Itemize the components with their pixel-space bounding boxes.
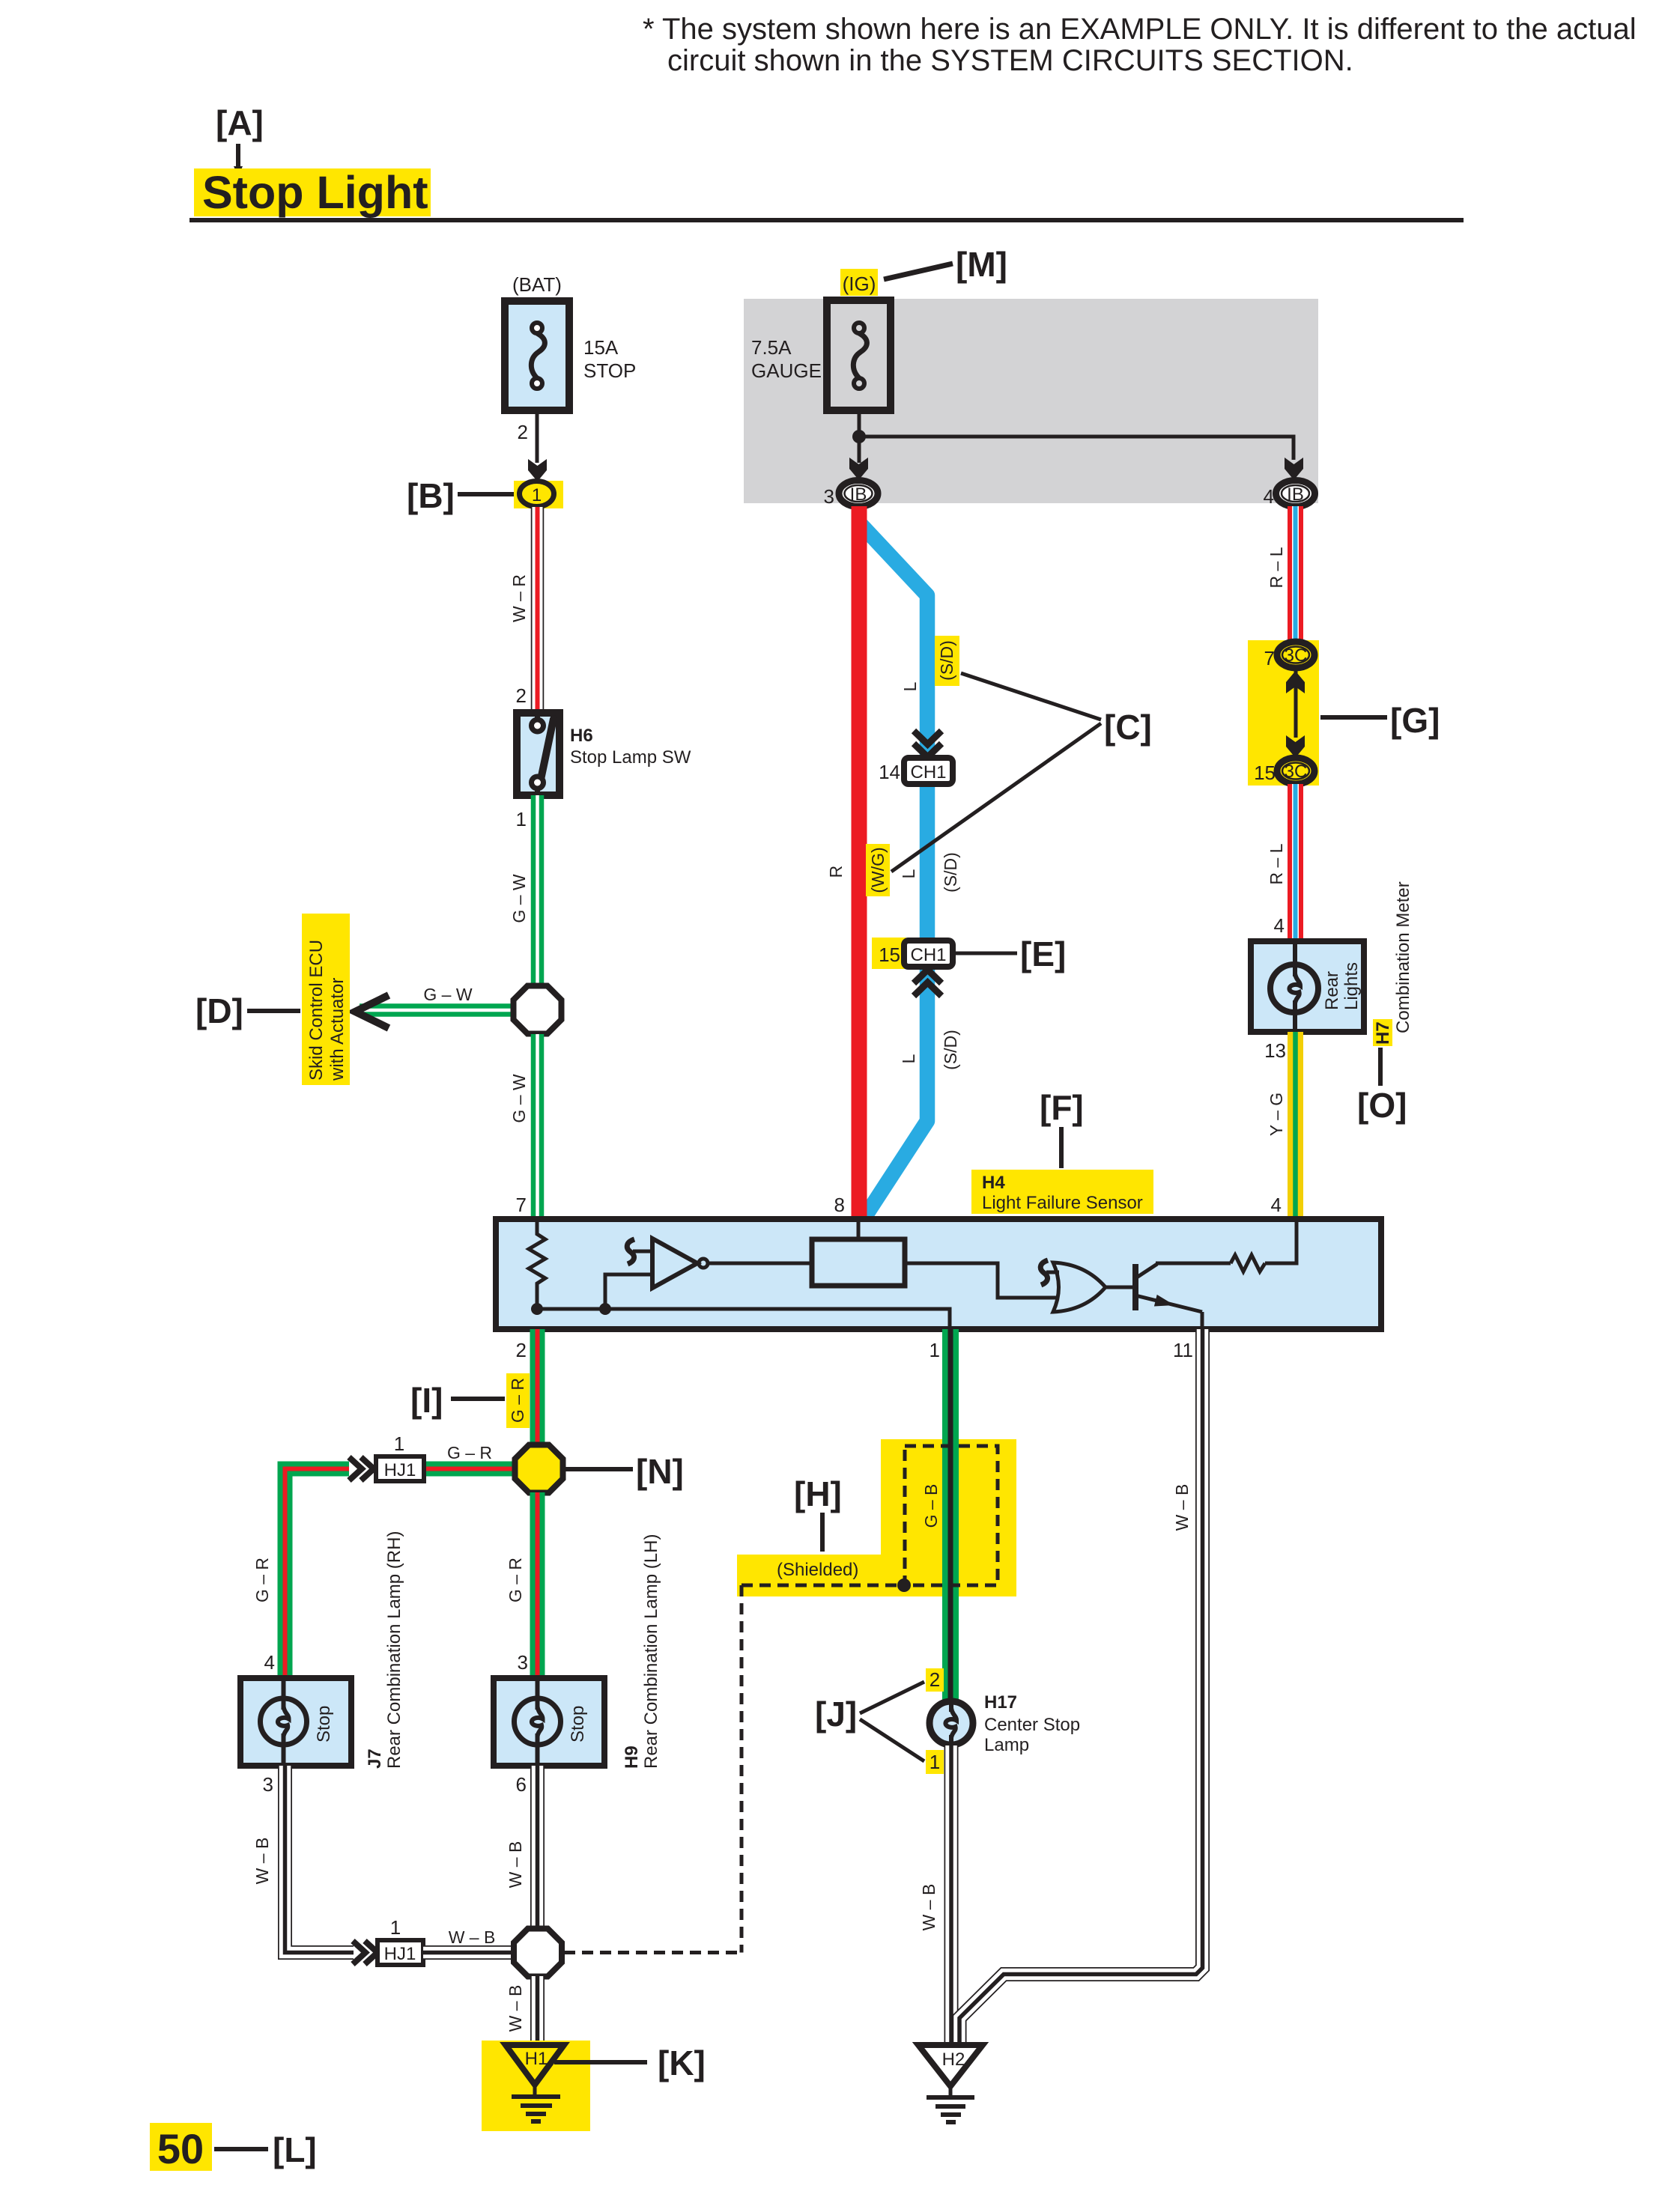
node junction dot 1 [531, 1303, 543, 1315]
connector CH1 (15) [904, 941, 953, 967]
wire G-W branch to skid ECU [360, 1003, 517, 1017]
svg-text:3: 3 [824, 485, 834, 508]
svg-text:G – W: G – W [509, 1074, 529, 1122]
wire G-R HJ1 to node N [424, 1462, 517, 1477]
wire resistor to pin 4 [1265, 1219, 1297, 1263]
svg-text:W – B: W – B [449, 1927, 496, 1947]
resistor R2 (horizontal) [1231, 1255, 1265, 1271]
svg-text:3C: 3C [1285, 762, 1308, 782]
svg-text:(IG): (IG) [843, 273, 876, 295]
wire junction down [858, 437, 861, 463]
wire OR to transistor base [1106, 1286, 1133, 1289]
label H9 Rear Combination Lamp (LH) [622, 1534, 661, 1769]
resistor R1 (vertical) [529, 1219, 545, 1309]
arrow below 3C 7 [1286, 671, 1305, 693]
node octagon junction (W-B) [514, 1929, 562, 1977]
label J7 Rear Combination Lamp (RH) [365, 1531, 404, 1769]
svg-text:2: 2 [516, 1339, 527, 1361]
svg-text:W – B: W – B [252, 1838, 272, 1885]
svg-text:Rear: Rear [1322, 971, 1342, 1010]
svg-text:3C: 3C [1285, 645, 1308, 666]
svg-text:[B]: [B] [407, 476, 455, 515]
wire from fuse F1 down [536, 414, 539, 463]
svg-text:Combination Meter: Combination Meter [1393, 881, 1413, 1033]
callout L [214, 2130, 317, 2169]
svg-text:4: 4 [1271, 1194, 1282, 1216]
svg-text:Skid Control ECU: Skid Control ECU [306, 940, 327, 1081]
svg-text:1: 1 [394, 1432, 404, 1455]
callout M [884, 245, 1007, 284]
svg-text:4: 4 [1264, 485, 1274, 508]
node octagon junction (G-W) [514, 986, 562, 1034]
svg-text:1: 1 [390, 1916, 401, 1939]
svg-text:2: 2 [930, 1668, 940, 1691]
svg-text:6: 6 [516, 1773, 527, 1796]
callout G [1320, 701, 1440, 740]
wire junction to right [859, 437, 1294, 460]
svg-text:W – B: W – B [506, 1841, 525, 1889]
label H4 Light Failure Sensor highlighted [971, 1170, 1153, 1214]
svg-text:IB: IB [850, 484, 867, 505]
node N octagon (highlighted) [515, 1445, 563, 1493]
node junction dot 2 [599, 1303, 611, 1315]
label H7 highlighted [1373, 1019, 1393, 1046]
callout A [216, 103, 264, 177]
svg-text:G – R: G – R [447, 1443, 492, 1462]
callout E [955, 935, 1066, 973]
connector IB (pin 4) [1276, 481, 1315, 507]
svg-text:H1: H1 [525, 2049, 548, 2069]
svg-text:1: 1 [532, 485, 542, 505]
svg-text:J7: J7 [365, 1748, 385, 1769]
wire W-B from H17 to ground H2 [944, 1745, 959, 2045]
svg-text:H9: H9 [622, 1745, 642, 1769]
fuse F1 15A STOP [505, 301, 569, 410]
svg-text:15: 15 [879, 944, 900, 966]
wire G-R from pin 2 to node N [530, 1329, 545, 1448]
rear combination lamp LH box H9 [494, 1678, 604, 1766]
pin 2 label H17 (highlighted) [926, 1668, 944, 1692]
svg-text:Center Stop: Center Stop [984, 1715, 1080, 1735]
arrow to skid control ECU [355, 995, 389, 1028]
svg-text:IB: IB [1287, 484, 1304, 505]
svg-text:4: 4 [264, 1651, 275, 1674]
wire W-B from J7 [285, 1766, 354, 1953]
svg-text:[A]: [A] [216, 103, 264, 142]
svg-text:[I]: [I] [410, 1381, 443, 1420]
wire G-W lower [531, 1034, 545, 1219]
svg-text:G – R: G – R [252, 1558, 272, 1602]
svg-text:[C]: [C] [1104, 708, 1152, 747]
svg-text:Lamp: Lamp [984, 1735, 1029, 1755]
wire G-R down-left branch [285, 1469, 350, 1679]
svg-text:[D]: [D] [195, 991, 243, 1030]
svg-text:L: L [899, 869, 918, 878]
wire pin 8 to block [857, 1219, 861, 1239]
svg-text:CH1: CH1 [910, 945, 946, 965]
svg-text:4: 4 [1274, 914, 1285, 937]
arrow into 3C 15 [1286, 735, 1305, 758]
hysteresis symbol U1 [627, 1239, 652, 1264]
svg-text:[M]: [M] [956, 245, 1007, 284]
svg-text:15A: 15A [583, 336, 619, 359]
page number 50 (highlighted) [150, 2123, 212, 2172]
svg-text:2: 2 [518, 421, 528, 443]
svg-text:50: 50 [157, 2125, 204, 2172]
fuse F2 7.5A GAUGE [827, 300, 891, 410]
svg-text:[O]: [O] [1357, 1086, 1407, 1125]
svg-text:2: 2 [516, 684, 527, 707]
callout B [407, 476, 518, 515]
callout F [1040, 1088, 1084, 1168]
svg-text:1: 1 [930, 1751, 940, 1773]
label (S/D) upper highlighted [935, 636, 959, 686]
pin 15 label highlighted [872, 938, 906, 969]
svg-text:[J]: [J] [815, 1695, 857, 1734]
wire W-B from H9 to octagon [530, 1766, 545, 1930]
svg-text:3: 3 [263, 1773, 273, 1796]
wire to pin 1 [537, 1309, 950, 1329]
chevron arrows into HJ1 lower [353, 1941, 377, 1964]
node B connector 1 (highlighted) [514, 481, 563, 508]
label H6 Stop Lamp SW [570, 726, 691, 768]
svg-text:Y – G: Y – G [1267, 1093, 1286, 1136]
svg-text:W – R: W – R [509, 574, 529, 622]
svg-text:[E]: [E] [1020, 935, 1066, 973]
svg-text:[L]: [L] [273, 2130, 317, 2169]
fuse F1 value label [583, 336, 636, 382]
title Stop Light [194, 167, 431, 218]
callout D [195, 991, 300, 1030]
svg-text:W – B: W – B [919, 1884, 938, 1931]
svg-text:(Shielded): (Shielded) [777, 1560, 858, 1580]
svg-text:CH1: CH1 [910, 762, 946, 783]
chevron arrows into HJ1 [349, 1457, 374, 1480]
callout H [794, 1474, 842, 1552]
wire W-R [531, 507, 545, 711]
svg-text:Stop Light: Stop Light [202, 167, 428, 218]
callout I [410, 1381, 505, 1420]
svg-text:[G]: [G] [1390, 701, 1440, 740]
svg-text:G – R: G – R [508, 1378, 527, 1423]
svg-text:G – B: G – B [921, 1484, 941, 1528]
svg-text:[K]: [K] [658, 2044, 706, 2082]
rear combination lamp RH box J7 [240, 1678, 351, 1766]
svg-text:[H]: [H] [794, 1474, 842, 1513]
svg-text:H7: H7 [1373, 1021, 1393, 1045]
svg-text:(S/D): (S/D) [941, 1030, 960, 1070]
svg-text:13: 13 [1264, 1039, 1286, 1062]
chevron arrows into CH1 pin 14 [914, 731, 941, 757]
svg-text:G – W: G – W [423, 985, 472, 1004]
wire G-W upper [531, 795, 545, 985]
OR gate U3 [1053, 1263, 1106, 1312]
svg-text:7.5A: 7.5A [751, 336, 792, 359]
svg-text:L: L [899, 1054, 918, 1063]
wire collector to resistor [1156, 1262, 1231, 1265]
wire G-R from node N to H9 [530, 1492, 545, 1678]
wire L (blue, shielded pair) [861, 524, 927, 1218]
svg-text:Light Failure Sensor: Light Failure Sensor [982, 1193, 1143, 1213]
wire W-B HJ1 to octagon [423, 1945, 517, 1960]
svg-text:HJ1: HJ1 [384, 1460, 416, 1480]
wire between 3C connectors [1294, 668, 1298, 738]
connector IB (pin 3) [839, 481, 878, 507]
junction dot [852, 430, 866, 443]
wire R-L upper [1288, 506, 1303, 644]
callout N [564, 1452, 684, 1491]
light failure sensor H4 box [496, 1219, 1381, 1329]
callout C with two leader lines [891, 673, 1152, 872]
wire Y-G [1288, 1032, 1303, 1219]
shield drain dashed wire [564, 1585, 905, 1953]
svg-text:H4: H4 [982, 1173, 1005, 1193]
svg-text:* The system shown here is an: * The system shown here is an EXAMPLE ON… [643, 13, 1637, 46]
highlight zone (Shielded) L-shape [737, 1439, 1016, 1596]
callout J with two leader lines [815, 1682, 924, 1761]
wire R-L lower [1288, 784, 1303, 941]
label G-R highlighted (I) [506, 1373, 530, 1428]
ground H2 [918, 2045, 983, 2122]
wire R (red) [852, 506, 867, 1219]
svg-text:Stop: Stop [568, 1706, 588, 1742]
connector HJ1 lower [377, 1940, 423, 1965]
wire G-B shielded from pin 1 to H17 [942, 1329, 959, 1701]
wire W-B octagon to ground H1 [530, 1976, 545, 2045]
transistor Q1 [1135, 1264, 1202, 1329]
arrow into IB pin 4 [1285, 458, 1303, 480]
shield junction dot [897, 1579, 911, 1592]
wire fuse F2 to junction [858, 414, 861, 437]
svg-text:[F]: [F] [1040, 1088, 1084, 1127]
label (IG) highlighted [840, 269, 878, 296]
callout K [554, 2044, 706, 2082]
chevron arrows out of CH1 pin 15 [914, 970, 941, 996]
svg-text:[N]: [N] [636, 1452, 684, 1491]
label H17 Center Stop Lamp [984, 1692, 1080, 1755]
svg-text:H17: H17 [984, 1692, 1017, 1713]
label Skid Control ECU with Actuator (highlighted) [302, 914, 350, 1085]
wire inverter to block [708, 1262, 812, 1265]
shield dashed box [905, 1446, 998, 1585]
svg-text:H2: H2 [942, 2050, 965, 2070]
connector 3C (7) [1277, 642, 1314, 668]
combination meter rear lights box H7 [1251, 941, 1364, 1032]
svg-text:Stop Lamp SW: Stop Lamp SW [570, 747, 691, 768]
svg-text:G – R: G – R [506, 1558, 525, 1602]
svg-text:Rear Combination Lamp (LH): Rear Combination Lamp (LH) [641, 1534, 661, 1769]
center stop lamp H17 [927, 1698, 976, 1748]
title rule [189, 218, 1464, 222]
pin 1 label H17 (highlighted) [926, 1750, 944, 1774]
svg-text:1: 1 [516, 808, 527, 830]
svg-text:circuit shown in the SYSTEM CI: circuit shown in the SYSTEM CIRCUITS SEC… [667, 44, 1353, 77]
ground H1 (highlighted) [482, 2041, 590, 2131]
arrow into IB pin 3 [849, 458, 868, 480]
svg-text:R – L: R – L [1267, 843, 1286, 884]
inverter U1 [652, 1239, 708, 1288]
switch H6 [517, 711, 559, 797]
svg-text:15: 15 [1254, 762, 1276, 784]
svg-text:W – B: W – B [1172, 1484, 1192, 1531]
svg-text:W – B: W – B [506, 1985, 525, 2032]
wire W-B from pin 11 to ground H2 [959, 1329, 1203, 2045]
junction block (grey) [744, 299, 1318, 503]
wire riser to inverter input [605, 1274, 652, 1309]
svg-text:1: 1 [930, 1339, 940, 1361]
arrow into node B [528, 459, 547, 481]
label (W/G) highlighted [866, 844, 890, 896]
svg-text:HJ1: HJ1 [384, 1944, 416, 1964]
svg-text:Lights: Lights [1341, 962, 1362, 1010]
svg-text:14: 14 [879, 761, 900, 783]
svg-text:G – W: G – W [509, 874, 529, 923]
svg-text:Stop: Stop [314, 1706, 334, 1742]
label Rear Lights [1322, 962, 1362, 1010]
connector HJ1 [376, 1456, 424, 1481]
connector CH1 (14) [904, 758, 953, 784]
svg-text:(S/D): (S/D) [941, 852, 960, 893]
svg-text:(W/G): (W/G) [868, 847, 888, 893]
svg-text:GAUGE: GAUGE [751, 359, 822, 382]
callout O [1357, 1048, 1407, 1125]
svg-text:with Actuator: with Actuator [327, 978, 348, 1081]
svg-text:(BAT): (BAT) [512, 273, 562, 296]
svg-text:11: 11 [1173, 1339, 1193, 1361]
svg-text:R – L: R – L [1267, 547, 1286, 588]
svg-text:7: 7 [1264, 647, 1275, 669]
svg-text:L: L [900, 681, 920, 691]
svg-text:STOP: STOP [583, 359, 636, 382]
connector 3C (15) [1277, 758, 1314, 784]
svg-text:8: 8 [834, 1194, 845, 1216]
svg-text:Rear Combination Lamp (RH): Rear Combination Lamp (RH) [384, 1531, 404, 1769]
wire block to OR gate [905, 1263, 1056, 1298]
highlight box 3C pair [1248, 640, 1319, 786]
svg-text:3: 3 [518, 1651, 528, 1674]
svg-text:7: 7 [516, 1194, 527, 1216]
svg-text:(S/D): (S/D) [937, 640, 956, 681]
svg-text:R: R [826, 866, 846, 878]
control block U2 [812, 1239, 905, 1286]
hysteresis symbol U3 [1040, 1260, 1059, 1285]
fuse F2 value label [751, 336, 822, 382]
svg-text:H6: H6 [570, 726, 593, 746]
